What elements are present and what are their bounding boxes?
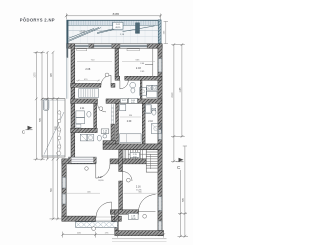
terrace right mini dimension — [164, 21, 168, 43]
washer laundry — [80, 134, 87, 141]
top wall pier 1 — [67, 44, 71, 48]
right dim ticks — [173, 43, 187, 237]
sink laundry — [103, 134, 107, 138]
WC room 2.05 — [130, 82, 136, 88]
door arc wall E — [96, 164, 110, 178]
WC room 2.10L — [87, 111, 91, 117]
boxed label 2.06 on wall C — [128, 98, 137, 104]
boxed label 2.13 — [101, 129, 109, 134]
cabinet room 2.09 top — [120, 105, 126, 111]
svg-text:2.08: 2.08 — [85, 68, 90, 71]
wardrobe band on wall E — [69, 157, 97, 163]
wall bottom of room 2.16 — [110, 210, 138, 214]
wall E right segment — [110, 159, 146, 164]
bathtub room 2.10 — [145, 104, 152, 114]
bottom dim line — [63, 232, 164, 238]
wall short vertical x111 — [111, 124, 115, 145]
window W3 in top wall — [120, 44, 147, 47]
svg-text:3,30: 3,30 — [103, 132, 107, 134]
tag circle near wall E — [85, 167, 89, 171]
terrace right wall edge — [158, 20, 161, 44]
WC room 2.10 — [152, 108, 156, 115]
window W2 in top wall — [94, 44, 112, 47]
svg-text:2.03: 2.03 — [136, 67, 141, 70]
wardrobe grid row2 — [79, 89, 99, 98]
svg-text:24,30: 24,30 — [98, 180, 104, 182]
wall C corridor left segment — [71, 99, 98, 104]
terrace column — [136, 23, 140, 34]
top wall pier 4 — [147, 44, 162, 48]
door tag circle room 2.08 — [105, 73, 109, 77]
dim inside 2.16 — [124, 191, 158, 193]
wall between 2.09 and bath 2.10 — [142, 103, 145, 143]
left section marker C — [22, 126, 33, 135]
window W1 in top wall — [71, 44, 89, 47]
door arc below W2 gap — [120, 80, 128, 88]
wall D left — [71, 128, 98, 132]
door tag circle wall C — [99, 107, 103, 111]
svg-text:C: C — [22, 130, 26, 135]
boxed label 2.07 on wall C — [120, 99, 127, 103]
svg-text:+2,85: +2,85 — [79, 31, 86, 33]
WC laundry — [97, 135, 101, 141]
double sink room 2.10L — [76, 111, 85, 117]
svg-text:2.10: 2.10 — [148, 121, 153, 123]
left exterior wall lower — [62, 159, 66, 221]
dryer laundry — [87, 134, 94, 141]
wall between rooms 2.08 and 2.03 — [115, 48, 119, 76]
staircase upper flight (horizontal run) — [124, 150, 146, 159]
terrace left wall edge — [66, 20, 68, 44]
svg-text:2.07: 2.07 — [122, 100, 126, 102]
door tag circle room 2.16 — [126, 178, 130, 182]
wall under room 2.08 right stub — [111, 83, 115, 87]
top wall pier 3 — [112, 44, 120, 48]
window right wall room 2.16 — [158, 197, 161, 211]
terrace slope diagonals — [69, 26, 155, 41]
door arc room 2.17 bottom — [96, 202, 112, 218]
svg-text:2.16: 2.16 — [136, 186, 141, 189]
left dim ticks — [35, 51, 59, 220]
shower room 2.05 — [140, 88, 147, 96]
door arc into room 2.16 — [123, 172, 133, 182]
partition wall in right bath row — [140, 80, 142, 99]
tag circle room 2.18 — [143, 214, 147, 218]
staircase lower flight (vertical run) — [146, 150, 158, 172]
left dim line 1 — [34, 52, 62, 219]
small fixture — [76, 124, 81, 127]
left terrace slope diagonal — [44, 112, 64, 155]
shower room 2.10 — [151, 124, 161, 134]
fixtures right small room — [147, 85, 157, 97]
bottom wall room 2.17 right segment — [112, 216, 122, 221]
radiator ladder corridor — [111, 104, 113, 123]
svg-text:PÔDORYS 2.NP: PÔDORYS 2.NP — [20, 17, 55, 22]
room 2.18 bottom wall — [115, 231, 164, 236]
svg-text:1145: 1145 — [180, 87, 182, 93]
right exterior wall — [158, 44, 162, 236]
tag circle balcony — [92, 227, 96, 231]
svg-text:48,95: 48,95 — [115, 27, 121, 29]
svg-text:2.17: 2.17 — [98, 176, 103, 179]
door arc room 2.16 bottom — [139, 195, 156, 212]
door arc room 2.08 — [101, 75, 111, 85]
window right wall room 2.18 — [158, 221, 161, 231]
stair walk line — [128, 154, 151, 169]
wall under room 2.03 right segment — [125, 76, 162, 80]
top dimension line — [65, 13, 162, 19]
svg-text:2.11: 2.11 — [80, 108, 85, 110]
threshold in bottom door gap — [96, 216, 112, 218]
dim inside 2.08 — [77, 60, 112, 62]
svg-text:2110: 2110 — [172, 92, 174, 98]
window right wall upper — [158, 59, 161, 73]
svg-text:8485: 8485 — [113, 12, 120, 16]
bathtub-like object left terrace — [43, 99, 49, 110]
right section marker C — [177, 158, 184, 170]
window left wall room 2.17 — [62, 177, 65, 188]
top wall pier 2 — [89, 44, 94, 48]
eaves line left — [66, 44, 68, 58]
bottom wall room 2.17 left segment — [62, 216, 96, 221]
top wall base — [67, 44, 163, 48]
wall under room 2.03 left segment — [115, 76, 120, 80]
terrace room label box 2.01 — [113, 22, 123, 29]
terrace top edge — [67, 19, 162, 21]
svg-text:2.09: 2.09 — [127, 121, 132, 123]
dim inside 2.03 — [122, 60, 155, 62]
right dim lines upper — [171, 45, 185, 162]
left exterior wall upper — [71, 44, 75, 161]
marker circles chain left terrace — [57, 110, 61, 155]
room 2.18 left wall — [115, 210, 119, 232]
wall room 2.09 left — [116, 103, 119, 143]
door arc wall C — [98, 103, 107, 112]
wall E left segment — [62, 159, 96, 164]
terrace railing band — [67, 20, 162, 25]
left terrace outline — [42, 99, 65, 157]
ground lines below 2.18 — [112, 238, 167, 240]
boxed label 2.18 — [128, 213, 138, 219]
dim inside 2.09 — [120, 115, 141, 117]
svg-text:1070: 1070 — [34, 72, 36, 78]
svg-text:5,60: 5,60 — [133, 156, 137, 158]
desk room 2.09 — [120, 134, 142, 143]
bottom dim ticks — [61, 233, 165, 236]
wall W10 lower — [119, 181, 123, 210]
svg-text:4,65: 4,65 — [131, 102, 135, 104]
wall W10 upper — [119, 150, 123, 172]
dim line bottom of 2.08 — [76, 79, 100, 82]
right dim lines lower — [178, 146, 189, 236]
boxed label 2.15 — [130, 152, 139, 158]
svg-text:10,90: 10,90 — [131, 218, 136, 220]
terrace strip background — [67, 20, 162, 44]
radiator under window W3 — [127, 49, 140, 51]
wall chunk above W7 — [103, 141, 116, 144]
wall corridor left vertical — [94, 103, 97, 128]
dim inside 2.17 — [64, 191, 100, 193]
terrace inner grid — [69, 26, 159, 44]
wall W7 horizontal — [103, 144, 162, 150]
balcony slab below 2.17 — [76, 222, 118, 228]
radiator under window W1 — [77, 49, 87, 51]
wall C corridor right segment — [106, 99, 162, 104]
window left wall room 2.17 second — [62, 194, 65, 204]
wall under room 2.08 left part — [71, 83, 101, 87]
window right wall bath 2.10 — [158, 130, 161, 140]
closet partition room 2.03 — [145, 48, 153, 76]
